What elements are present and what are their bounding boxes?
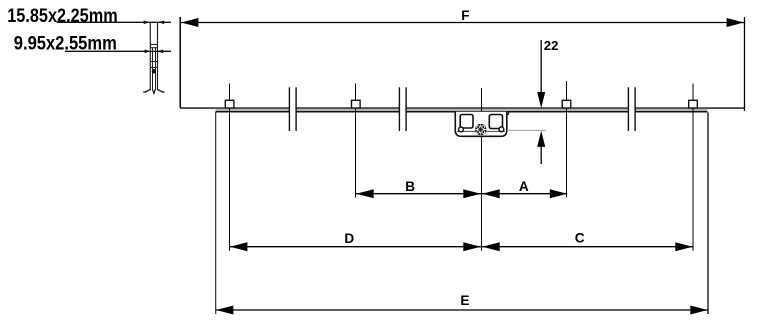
dimension C arrow right (675, 242, 692, 251)
dimension D line (230, 246, 481, 248)
roller cam 1 right line (295, 87, 297, 131)
svg-text:E: E (460, 293, 469, 308)
leader line for 9.95x2.55mm (65, 50, 171, 52)
profile foot center V (152, 89, 155, 93)
dimension E arrow left (216, 306, 233, 315)
profile cross-section outer wall left (149, 22, 151, 90)
dimension E line (216, 309, 708, 311)
svg-text:D: D (344, 231, 354, 246)
gearbox hub cross horizontal (476, 129, 486, 131)
profile cross-section outer wall right (157, 22, 159, 90)
dimension E arrow right (690, 306, 707, 315)
faceplate bar body fill (216, 109, 708, 112)
faceplate bar bottom edge (216, 111, 708, 113)
dimension B arrow left (356, 189, 373, 198)
dimension C arrow left (482, 242, 499, 251)
svg-text:22: 22 (544, 38, 559, 53)
svg-text:F: F (461, 8, 469, 23)
gearbox housing tab right (507, 112, 509, 115)
leader arrow left (9.95) (145, 50, 151, 54)
pin 4 square (689, 100, 698, 108)
roller cam 2 left line (398, 87, 400, 131)
roller cam 2 right line (405, 87, 407, 131)
pin 1 square (225, 100, 234, 108)
pin 3 centerline (566, 81, 568, 198)
dimension E extension line right (707, 113, 709, 315)
dimension A arrow right (550, 189, 567, 198)
dimension 22 up arrow (537, 131, 545, 147)
profile rivet dot (152, 69, 156, 73)
roller cam 1 left line (288, 87, 290, 131)
gearbox window right (489, 115, 502, 129)
dimension 22 down arrow (537, 92, 545, 108)
profile inner wall right (155, 48, 157, 91)
svg-text:15.85x2.25mm: 15.85x2.25mm (7, 5, 117, 27)
leader arrow right (9.95) (157, 50, 163, 54)
gearbox window left (460, 115, 473, 129)
dimension E extension line left (215, 112, 217, 314)
roller cam 1 gap (290, 105, 296, 116)
dimension D arrow right (463, 242, 480, 251)
dimension A arrow left (482, 189, 499, 198)
gearbox centerline (481, 88, 483, 251)
roller cam 3 right line (634, 87, 636, 131)
dimension F line (181, 22, 744, 24)
gearbox hub cross vertical (480, 124, 482, 134)
dimension 22 shaft lower (540, 147, 542, 164)
profile foot right flare (157, 89, 164, 92)
profile rung lower A (151, 61, 157, 63)
leader arrow right (15.85) (158, 21, 164, 25)
gearbox hub center cross (478, 127, 483, 132)
profile rung upper A (150, 44, 157, 46)
roller cam 2 gap (400, 105, 406, 116)
dimension C line (482, 246, 693, 248)
dimension F arrow right (727, 18, 744, 27)
dimension A line (482, 193, 567, 195)
dimension F arrow left (181, 18, 198, 27)
pin 2 centerline (355, 84, 357, 198)
gearbox hub knurl top-left (477, 126, 480, 129)
profile rung upper B (150, 47, 157, 49)
dimension 22 reference line (507, 129, 546, 131)
dimension D arrow left (230, 242, 247, 251)
pin 2 square (352, 100, 361, 108)
gearbox hub knurl bottom-left (477, 131, 480, 134)
profile rung lower B (151, 67, 157, 69)
svg-text:B: B (405, 179, 415, 194)
dimension F extension line left (179, 17, 181, 108)
svg-text:C: C (575, 231, 585, 246)
gearbox hub knurl bottom-right (482, 131, 485, 134)
roller cam 3 gap (629, 105, 635, 116)
profile foot left flare (143, 89, 150, 92)
profile inner wall left (152, 48, 154, 91)
pin 3 square (562, 100, 571, 108)
roller cam 3 left line (627, 87, 629, 131)
gearbox hub knurl top-right (482, 126, 485, 129)
gearbox screw left (459, 127, 464, 132)
pin 1 centerline (229, 84, 231, 251)
gearbox housing (455, 112, 507, 137)
svg-text:A: A (519, 179, 529, 194)
gearbox screw right (499, 127, 504, 132)
gearbox inner ledge (457, 130, 505, 132)
dimension B line (356, 193, 481, 195)
leader arrow left (15.85) (144, 21, 150, 25)
pin 4 centerline (692, 84, 694, 251)
leader line for 15.85x2.25mm (57, 21, 172, 23)
dimension F extension line right (744, 17, 746, 111)
gearbox hub disc (475, 124, 486, 135)
dimension 22 shaft upper (540, 40, 542, 93)
faceplate top edge line (180, 107, 745, 109)
dimension B arrow right (463, 189, 480, 198)
